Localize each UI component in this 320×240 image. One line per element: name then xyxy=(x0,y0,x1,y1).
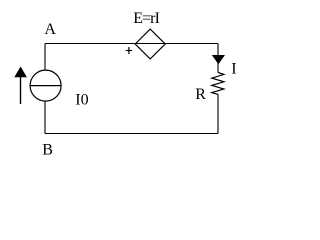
svg-text:I0: I0 xyxy=(75,92,88,109)
svg-text:A: A xyxy=(44,21,56,38)
svg-text:I: I xyxy=(231,60,236,77)
svg-text:E=rI: E=rI xyxy=(133,10,159,27)
svg-text:R: R xyxy=(195,86,206,103)
svg-text:B: B xyxy=(42,141,53,158)
